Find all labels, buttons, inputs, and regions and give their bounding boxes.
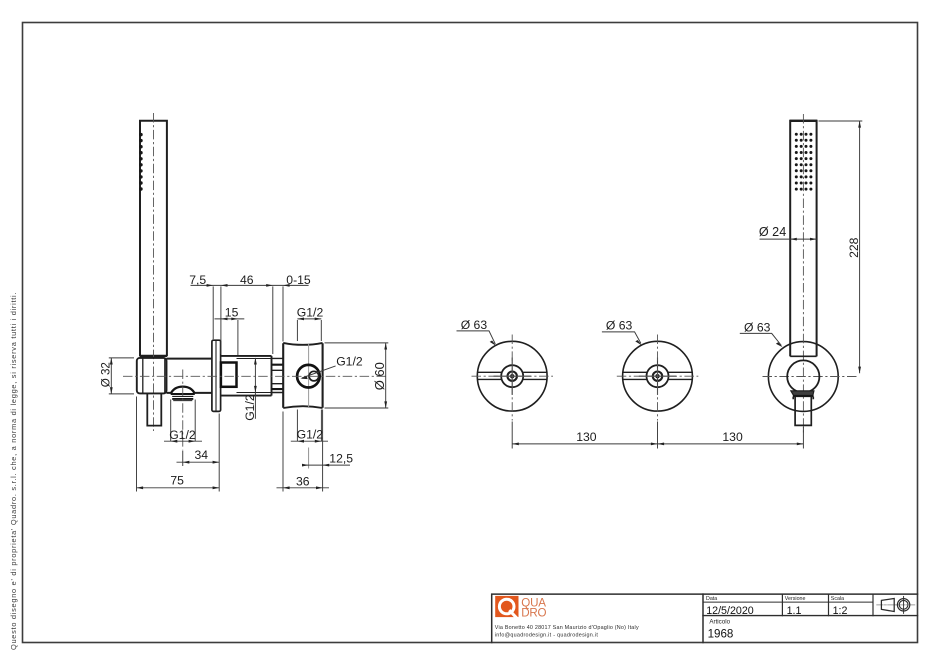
holder ball [787,360,819,392]
handle bottom cap line [140,355,168,357]
svg-text:Versione: Versione [785,596,806,602]
hose connector front [795,397,811,426]
svg-text:Ø 24: Ø 24 [759,225,786,239]
svg-text:75: 75 [170,473,184,487]
svg-text:Ø 63: Ø 63 [461,318,488,332]
wall tube [221,356,272,396]
dia 32 dimension [109,358,134,394]
svg-text:Ø 60: Ø 60 [372,362,387,390]
svg-text:1968: 1968 [708,627,734,640]
svg-text:15: 15 [225,306,239,320]
title block column lines [782,594,873,616]
holder ring (side view) [137,358,167,394]
title block header underline [703,601,873,603]
svg-text:228: 228 [847,237,861,258]
svg-text:12,5: 12,5 [329,452,353,466]
G1/2 valve leader [302,366,336,378]
svg-text:1.1: 1.1 [787,605,802,617]
dim 12,5 [304,410,351,492]
svg-text:34: 34 [195,448,209,462]
main horizontal centerline [123,375,388,377]
dim 75 [137,397,220,492]
dim 130 chain [512,422,803,449]
wall flange (escutcheon side) [212,340,221,411]
svg-text:12/5/2020: 12/5/2020 [706,605,754,617]
dia 63 label circle 3 [740,333,782,345]
svg-text:G1/2: G1/2 [297,306,324,320]
escutcheon circle 1 [477,341,547,411]
handle front centerline [802,114,804,433]
svg-text:Data: Data [706,596,717,602]
svg-text:130: 130 [722,430,743,444]
svg-text:Scala: Scala [831,596,844,602]
svg-text:DRO: DRO [521,606,546,619]
title block row divider [703,615,918,617]
svg-text:Via Bonetto 40 28017 San Maur: Via Bonetto 40 28017 San Maurizio d'Opag… [495,625,639,631]
G1/2 tube vertical dimension [254,358,256,419]
valve body (side view) [283,343,322,408]
tube inner walls [237,359,272,393]
G1/2 outlet dimension [164,400,202,442]
mounting nut (bold) [221,363,237,387]
logo QUADRO square [495,596,518,617]
G1/2 valve bottom dimension [291,410,328,442]
valve vertical face line [308,344,310,407]
projection symbol gray centerline [877,604,915,606]
outlet centerline [182,370,184,450]
svg-text:G1/2: G1/2 [169,428,196,442]
dimension top chain line [191,285,322,355]
svg-text:Questo disegno e' di proprieta: Questo disegno e' di proprieta' Quadro. … [9,292,18,650]
dia 60 dimension [325,343,389,408]
svg-text:G1/2: G1/2 [243,394,257,421]
svg-text:G1/2: G1/2 [297,428,324,442]
svg-text:G1/2: G1/2 [336,355,363,369]
projection symbol circle view [897,596,909,613]
svg-text:7,5: 7,5 [189,273,206,287]
dia 63 label circle 1 [457,331,496,344]
svg-text:130: 130 [576,430,597,444]
svg-text:info@quadrodesign.it - quadr: info@quadrodesign.it - quadrodesign.it [495,633,599,639]
circle 2 centerlines [617,375,699,377]
svg-text:46: 46 [240,273,254,287]
dia 63 label circle 2 [602,332,641,344]
dimension arrows top [207,284,322,320]
spray nozzle grid [795,133,813,191]
spray nozzles (side) [139,133,142,191]
valve small port circle [309,371,319,381]
hand shower handle (side view) [140,121,167,356]
escutcheon circle 2 [623,341,693,411]
svg-text:Ø 63: Ø 63 [606,318,633,332]
svg-text:Articolo: Articolo [709,619,730,626]
dim 34 [177,414,220,492]
circle 3 centerline horizontal [763,376,859,378]
valve knob circle [297,365,320,388]
ball collar [790,355,816,357]
holder arm [167,359,213,393]
svg-text:Ø 63: Ø 63 [744,320,771,334]
circle 1 centerlines [472,375,554,377]
svg-text:0-15: 0-15 [286,273,311,287]
handle lower stem [147,394,161,426]
dim 36 [277,412,330,492]
svg-text:36: 36 [296,474,310,488]
dia 24 dimension [760,238,817,240]
threaded nipple [272,358,284,392]
handle centerline [153,113,155,431]
svg-text:Ø 32: Ø 32 [99,362,112,387]
projection symbol cone [881,599,894,612]
dim 228 [819,121,863,373]
escutcheon circle 3 [768,342,838,412]
outlet collar [171,393,195,395]
title block divider logo/data [702,594,704,642]
outlet dome [171,387,195,394]
logo Q glyph [499,599,517,618]
hand shower handle (front view) [790,121,816,357]
ring inner wall lines [143,358,165,393]
title block outer lines [492,594,918,642]
svg-text:1:2: 1:2 [833,605,848,617]
